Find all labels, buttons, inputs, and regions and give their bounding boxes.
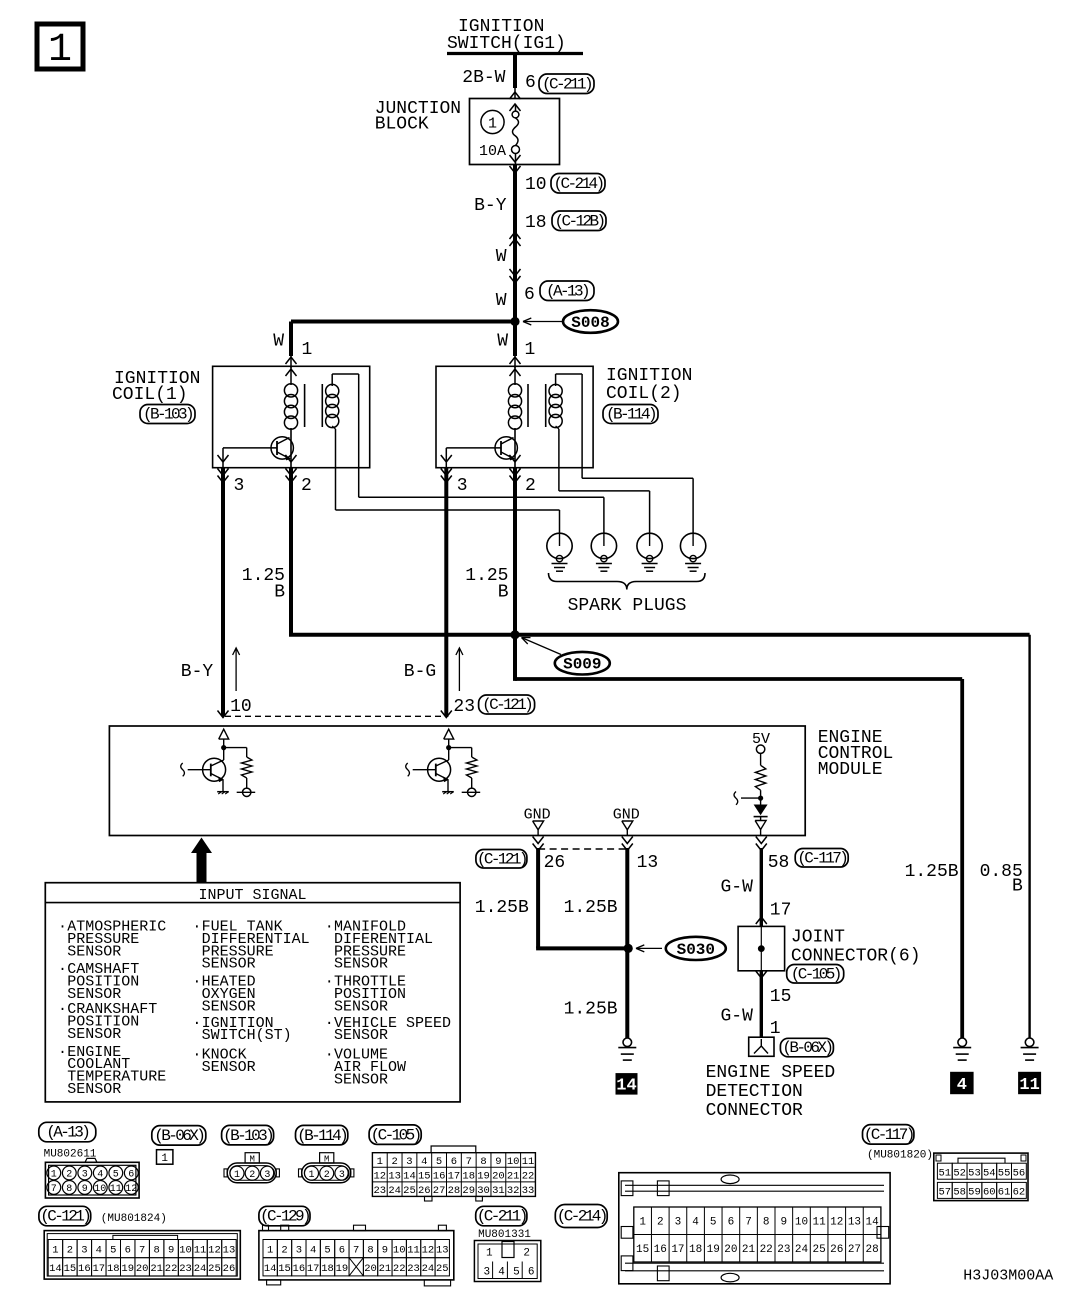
svg-text:IGNITION: IGNITION: [606, 366, 692, 386]
svg-text:JOINT: JOINT: [791, 928, 845, 948]
svg-text:54: 54: [983, 1167, 996, 1179]
svg-text:6: 6: [451, 1156, 457, 1168]
svg-text:21: 21: [742, 1244, 756, 1256]
svg-text:14: 14: [616, 1077, 636, 1096]
svg-text:22: 22: [393, 1263, 406, 1275]
svg-text:59: 59: [968, 1187, 981, 1199]
svg-text:SENSOR: SENSOR: [202, 998, 256, 1015]
svg-text:3: 3: [296, 1245, 302, 1257]
svg-text:·: ·: [192, 919, 201, 936]
svg-text:·: ·: [58, 1001, 67, 1018]
svg-text:16: 16: [293, 1263, 306, 1275]
svg-text:14: 14: [403, 1170, 416, 1182]
svg-text:3: 3: [82, 1170, 88, 1181]
svg-text:SPARK PLUGS: SPARK PLUGS: [568, 596, 687, 616]
svg-text:20: 20: [364, 1263, 377, 1275]
svg-text:(C-214): (C-214): [557, 1208, 606, 1226]
svg-text:1: 1: [161, 1153, 168, 1165]
svg-text:16: 16: [654, 1244, 667, 1256]
svg-text:14: 14: [264, 1263, 277, 1275]
svg-text:21: 21: [507, 1170, 520, 1182]
svg-text:1: 1: [302, 340, 313, 360]
svg-text:51: 51: [939, 1167, 952, 1179]
svg-text:23: 23: [777, 1244, 790, 1256]
svg-text:(A-13): (A-13): [546, 282, 588, 300]
svg-text:B-Y: B-Y: [181, 662, 214, 682]
svg-text:(C-129): (C-129): [260, 1208, 309, 1226]
svg-text:2: 2: [523, 1248, 530, 1260]
svg-text:25: 25: [813, 1244, 826, 1256]
svg-text:25: 25: [208, 1263, 221, 1275]
svg-text:15: 15: [636, 1244, 649, 1256]
svg-text:1: 1: [267, 1245, 273, 1257]
svg-text:·: ·: [58, 1044, 67, 1061]
svg-text:14: 14: [49, 1263, 62, 1275]
svg-text:W: W: [496, 247, 507, 267]
svg-text:13: 13: [637, 853, 659, 873]
svg-text:(C-121): (C-121): [482, 696, 531, 714]
svg-text:57: 57: [939, 1187, 952, 1199]
svg-text:10: 10: [507, 1156, 520, 1168]
svg-text:(C-105): (C-105): [371, 1126, 420, 1144]
svg-text:2: 2: [281, 1245, 287, 1257]
svg-text:1: 1: [770, 1019, 781, 1039]
svg-text:25: 25: [436, 1263, 449, 1275]
svg-text:(C-121): (C-121): [477, 850, 526, 868]
svg-text:8: 8: [153, 1245, 159, 1257]
svg-text:15: 15: [64, 1263, 77, 1275]
svg-text:4: 4: [421, 1156, 427, 1168]
svg-text:(B-103): (B-103): [143, 406, 192, 424]
svg-text:(C-117): (C-117): [797, 849, 846, 867]
svg-text:6: 6: [125, 1245, 131, 1257]
svg-text:MU801331: MU801331: [478, 1229, 531, 1241]
svg-text:17: 17: [770, 901, 792, 921]
svg-text:CONNECTOR: CONNECTOR: [706, 1101, 803, 1121]
svg-text:M: M: [324, 1155, 329, 1165]
svg-text:6: 6: [528, 1267, 535, 1279]
svg-text:10A: 10A: [479, 143, 506, 160]
svg-text:11: 11: [813, 1217, 827, 1229]
svg-text:58: 58: [768, 853, 790, 873]
svg-text:(C-105): (C-105): [791, 965, 840, 983]
svg-text:B: B: [274, 583, 285, 603]
svg-text:19: 19: [121, 1263, 134, 1275]
svg-text:19: 19: [477, 1170, 490, 1182]
svg-text:·: ·: [192, 974, 201, 991]
svg-text:24: 24: [422, 1263, 435, 1275]
svg-text:SENSOR: SENSOR: [67, 1026, 121, 1043]
svg-text:W: W: [497, 332, 508, 352]
svg-text:6: 6: [339, 1245, 345, 1257]
svg-text:19: 19: [707, 1244, 720, 1256]
svg-text:22: 22: [165, 1263, 178, 1275]
svg-text:9: 9: [168, 1245, 174, 1257]
svg-text:1: 1: [486, 1248, 493, 1260]
svg-text:23: 23: [179, 1263, 192, 1275]
svg-text:22: 22: [760, 1244, 773, 1256]
svg-text:7: 7: [466, 1156, 472, 1168]
svg-text:3: 3: [406, 1156, 412, 1168]
svg-text:55: 55: [998, 1167, 1011, 1179]
svg-text:(C-211): (C-211): [542, 75, 591, 93]
svg-text:53: 53: [968, 1167, 981, 1179]
svg-text:4: 4: [310, 1245, 316, 1257]
svg-text:30: 30: [477, 1185, 490, 1197]
svg-text:17: 17: [448, 1170, 461, 1182]
svg-text:(A-13): (A-13): [46, 1124, 88, 1142]
svg-text:24: 24: [388, 1185, 401, 1197]
svg-text:27: 27: [433, 1185, 446, 1197]
svg-text:SENSOR: SENSOR: [202, 1059, 256, 1076]
svg-text:11: 11: [407, 1245, 420, 1257]
svg-text:COIL(1): COIL(1): [112, 385, 188, 405]
svg-text:B: B: [498, 583, 509, 603]
svg-text:M: M: [249, 1155, 254, 1165]
svg-text:7: 7: [139, 1245, 145, 1257]
svg-text:9: 9: [495, 1156, 501, 1168]
svg-text:SWITCH(IG1): SWITCH(IG1): [447, 34, 566, 54]
svg-text:9: 9: [82, 1184, 88, 1195]
svg-text:2: 2: [657, 1217, 664, 1229]
svg-text:SENSOR: SENSOR: [67, 1081, 121, 1098]
svg-text:62: 62: [1013, 1187, 1026, 1199]
svg-text:2: 2: [391, 1156, 397, 1168]
svg-text:1: 1: [234, 1170, 240, 1181]
svg-text:10: 10: [230, 697, 252, 717]
svg-text:31: 31: [492, 1185, 505, 1197]
svg-text:1: 1: [377, 1156, 383, 1168]
svg-text:4: 4: [97, 1170, 103, 1181]
svg-text:·: ·: [58, 961, 67, 978]
svg-text:10: 10: [393, 1245, 406, 1257]
svg-text:·: ·: [325, 919, 334, 936]
svg-text:·: ·: [58, 919, 67, 936]
svg-text:1: 1: [639, 1217, 646, 1229]
svg-text:3: 3: [81, 1245, 87, 1257]
svg-text:15: 15: [278, 1263, 291, 1275]
svg-text:S009: S009: [563, 656, 601, 674]
svg-text:·: ·: [325, 974, 334, 991]
svg-text:H3J03M00AA: H3J03M00AA: [963, 1268, 1053, 1285]
svg-text:56: 56: [1013, 1167, 1026, 1179]
svg-text:(C-121): (C-121): [40, 1208, 89, 1226]
svg-text:4: 4: [498, 1267, 505, 1279]
svg-text:25: 25: [403, 1185, 416, 1197]
svg-text:26: 26: [223, 1263, 236, 1275]
svg-text:S008: S008: [571, 314, 609, 332]
svg-text:1.25B: 1.25B: [475, 898, 529, 918]
svg-text:2: 2: [324, 1170, 330, 1181]
svg-text:3: 3: [264, 1170, 270, 1181]
svg-text:3: 3: [234, 476, 245, 496]
svg-text:SWITCH(ST): SWITCH(ST): [202, 1027, 292, 1044]
svg-text:G-W: G-W: [720, 1007, 753, 1027]
svg-text:12: 12: [374, 1170, 387, 1182]
svg-text:MODULE: MODULE: [818, 760, 883, 780]
svg-text:SENSOR: SENSOR: [334, 1072, 388, 1089]
svg-text:(B-06X): (B-06X): [154, 1127, 203, 1145]
svg-text:23: 23: [407, 1263, 420, 1275]
svg-text:CONNECTOR(6): CONNECTOR(6): [791, 947, 921, 967]
svg-text:20: 20: [136, 1263, 149, 1275]
svg-text:B-G: B-G: [404, 662, 436, 682]
svg-text:28: 28: [865, 1244, 878, 1256]
svg-text:SENSOR: SENSOR: [334, 956, 388, 973]
svg-text:1: 1: [308, 1170, 314, 1181]
svg-text:13: 13: [436, 1245, 449, 1257]
svg-text:10: 10: [795, 1217, 808, 1229]
svg-text:21: 21: [379, 1263, 392, 1275]
svg-text:3: 3: [339, 1170, 345, 1181]
svg-text:18: 18: [689, 1244, 702, 1256]
svg-text:BLOCK: BLOCK: [375, 115, 429, 135]
svg-text:10: 10: [179, 1245, 192, 1257]
svg-text:33: 33: [522, 1185, 535, 1197]
svg-text:11: 11: [1019, 1076, 1039, 1095]
svg-text:12: 12: [208, 1245, 221, 1257]
svg-text:5: 5: [710, 1217, 717, 1229]
svg-text:18: 18: [321, 1263, 334, 1275]
svg-text:1: 1: [51, 1170, 57, 1181]
svg-text:17: 17: [307, 1263, 320, 1275]
svg-text:10: 10: [94, 1184, 106, 1195]
svg-text:(C-117): (C-117): [864, 1126, 913, 1144]
svg-text:·: ·: [192, 1047, 201, 1064]
svg-text:(B-103): (B-103): [223, 1127, 272, 1145]
svg-text:1: 1: [52, 1245, 58, 1257]
svg-text:29: 29: [462, 1185, 475, 1197]
svg-text:3: 3: [675, 1217, 682, 1229]
svg-text:16: 16: [78, 1263, 91, 1275]
svg-text:(C-211): (C-211): [477, 1208, 526, 1226]
svg-text:11: 11: [110, 1184, 122, 1195]
svg-text:27: 27: [848, 1244, 861, 1256]
svg-text:S030: S030: [677, 941, 715, 959]
svg-text:17: 17: [671, 1244, 684, 1256]
svg-text:12: 12: [830, 1217, 843, 1229]
svg-text:15: 15: [418, 1170, 431, 1182]
svg-text:24: 24: [194, 1263, 207, 1275]
svg-text:(B-114): (B-114): [297, 1127, 346, 1145]
svg-text:DETECTION: DETECTION: [706, 1082, 803, 1102]
svg-text:2: 2: [301, 476, 312, 496]
svg-text:12: 12: [422, 1245, 435, 1257]
svg-text:6: 6: [525, 73, 536, 93]
svg-text:7: 7: [51, 1184, 57, 1195]
svg-text:1: 1: [525, 340, 536, 360]
svg-text:6: 6: [524, 285, 535, 305]
svg-text:24: 24: [795, 1244, 809, 1256]
svg-text:INPUT SIGNAL: INPUT SIGNAL: [198, 887, 306, 904]
svg-text:14: 14: [865, 1217, 879, 1229]
svg-text:(B-06X): (B-06X): [782, 1039, 831, 1057]
svg-text:10: 10: [525, 175, 547, 195]
svg-text:(C-214): (C-214): [553, 175, 602, 193]
svg-text:6: 6: [128, 1170, 134, 1181]
svg-text:·: ·: [192, 1015, 201, 1032]
svg-text:19: 19: [336, 1263, 349, 1275]
svg-text:61: 61: [998, 1187, 1011, 1199]
svg-text:COIL(2): COIL(2): [606, 384, 682, 404]
svg-text:(C-12B): (C-12B): [554, 212, 603, 230]
svg-text:20: 20: [724, 1244, 737, 1256]
svg-text:8: 8: [367, 1245, 373, 1257]
svg-text:3: 3: [457, 476, 468, 496]
svg-text:60: 60: [983, 1187, 996, 1199]
svg-text:2B-W: 2B-W: [462, 68, 505, 88]
svg-text:1: 1: [488, 116, 497, 133]
svg-text:9: 9: [382, 1245, 388, 1257]
svg-text:2: 2: [66, 1170, 72, 1181]
svg-text:20: 20: [492, 1170, 505, 1182]
svg-text:2: 2: [67, 1245, 73, 1257]
svg-text:22: 22: [522, 1170, 535, 1182]
svg-text:1.25B: 1.25B: [564, 1000, 618, 1020]
svg-text:17: 17: [93, 1263, 106, 1275]
svg-text:(B-114): (B-114): [606, 406, 655, 424]
svg-text:4: 4: [96, 1245, 102, 1257]
svg-text:5: 5: [110, 1245, 116, 1257]
svg-text:W: W: [273, 332, 284, 352]
svg-text:13: 13: [223, 1245, 236, 1257]
svg-text:23: 23: [374, 1185, 387, 1197]
svg-text:18: 18: [462, 1170, 475, 1182]
svg-text:ENGINE SPEED: ENGINE SPEED: [706, 1063, 836, 1083]
svg-text:58: 58: [953, 1187, 966, 1199]
svg-text:13: 13: [848, 1217, 861, 1229]
svg-text:15: 15: [770, 987, 792, 1007]
svg-text:52: 52: [953, 1167, 966, 1179]
svg-text:4: 4: [692, 1217, 699, 1229]
svg-text:5: 5: [436, 1156, 442, 1168]
svg-text:16: 16: [433, 1170, 446, 1182]
svg-text:26: 26: [830, 1244, 843, 1256]
svg-text:21: 21: [150, 1263, 163, 1275]
svg-text:26: 26: [418, 1185, 431, 1197]
svg-text:·: ·: [325, 1047, 334, 1064]
svg-text:7: 7: [745, 1217, 752, 1229]
svg-text:32: 32: [507, 1185, 520, 1197]
svg-text:1: 1: [48, 28, 72, 73]
svg-text:5: 5: [513, 1267, 520, 1279]
svg-text:6: 6: [728, 1217, 735, 1229]
svg-text:18: 18: [107, 1263, 120, 1275]
svg-text:13: 13: [388, 1170, 401, 1182]
svg-text:11: 11: [194, 1245, 207, 1257]
svg-text:12: 12: [125, 1184, 137, 1195]
svg-text:B-Y: B-Y: [474, 196, 507, 216]
svg-text:2: 2: [525, 476, 536, 496]
svg-text:SENSOR: SENSOR: [67, 943, 121, 960]
svg-text:W: W: [496, 291, 507, 311]
svg-text:26: 26: [544, 853, 566, 873]
svg-text:23: 23: [453, 697, 475, 717]
svg-text:9: 9: [781, 1217, 788, 1229]
svg-text:G-W: G-W: [720, 878, 753, 898]
svg-text:(MU801820): (MU801820): [867, 1150, 933, 1162]
svg-text:3: 3: [484, 1267, 491, 1279]
svg-text:SENSOR: SENSOR: [334, 998, 388, 1015]
svg-text:5: 5: [113, 1170, 119, 1181]
svg-text:7: 7: [353, 1245, 359, 1257]
svg-text:28: 28: [448, 1185, 461, 1197]
svg-text:·: ·: [325, 1015, 334, 1032]
svg-text:2: 2: [249, 1170, 255, 1181]
svg-text:11: 11: [522, 1156, 535, 1168]
svg-text:SENSOR: SENSOR: [334, 1027, 388, 1044]
svg-text:4: 4: [957, 1076, 967, 1095]
svg-text:18: 18: [525, 213, 547, 233]
svg-text:8: 8: [66, 1184, 72, 1195]
svg-text:1.25B: 1.25B: [564, 898, 618, 918]
svg-text:(MU801824): (MU801824): [101, 1213, 167, 1225]
svg-text:1.25B: 1.25B: [905, 862, 959, 882]
svg-text:8: 8: [480, 1156, 486, 1168]
svg-text:B: B: [1012, 877, 1023, 897]
svg-text:8: 8: [763, 1217, 770, 1229]
svg-text:5: 5: [324, 1245, 330, 1257]
svg-text:SENSOR: SENSOR: [202, 956, 256, 973]
